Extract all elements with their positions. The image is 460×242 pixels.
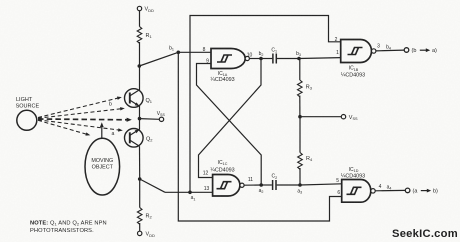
wire b2 to IC1C pin 12 (cross coupling): [199, 59, 262, 178]
capacitor C1: [271, 47, 277, 63]
watermark SeekIC.com: [392, 228, 458, 240]
wire Q2 collector down: [139, 146, 141, 179]
light source: [16, 97, 40, 130]
node junction Q2c/R2: [138, 177, 142, 181]
wire C1 to b3: [277, 58, 299, 60]
wire mid node to VSS terminal: [140, 118, 160, 121]
wire Q1 emitter to mid node: [139, 106, 141, 119]
terminal output (b to a): [404, 48, 437, 54]
node mid (Q1e/Q2e): [138, 117, 142, 121]
note text: [30, 220, 107, 234]
wire IC1A output to b2: [250, 58, 261, 60]
node b3: [296, 51, 301, 61]
node b2: [259, 51, 264, 61]
node junction R3/R4: [298, 115, 302, 119]
terminal VDD top: [137, 6, 154, 13]
transistor Q2: [125, 128, 154, 147]
resistor R2: [137, 179, 152, 224]
node b4 label: [386, 44, 391, 50]
wire IC1D output to terminal: [375, 189, 405, 191]
nand gate IC1A: [203, 47, 253, 83]
beam label b: [109, 102, 112, 108]
wire b2 to C1: [261, 58, 272, 60]
light beam b: [38, 107, 125, 119]
terminal output (a to b): [405, 188, 438, 195]
terminal VDD bottom: [138, 231, 156, 238]
node b1: [169, 46, 180, 55]
arrow object motion up: [100, 122, 104, 138]
node a1: [188, 191, 195, 202]
wire b1 to IC1A pin 8: [178, 51, 211, 53]
decorative scan noise: [0, 0, 1, 1]
light beam blocked: [38, 120, 91, 137]
terminal VSS mid: [157, 111, 166, 121]
transistor Q1: [125, 89, 153, 108]
node a2: [259, 183, 264, 194]
wire IC1B output to terminal: [376, 49, 404, 52]
resistor R4: [298, 117, 313, 185]
wire junction to a1 line: [140, 179, 165, 192]
wire a2 to IC1A pin 9 (cross coupling): [197, 64, 262, 185]
node a4 label: [387, 184, 392, 190]
light beam to Q1: [38, 95, 122, 117]
resistor R3: [297, 59, 312, 117]
wire R2 to VDD terminal: [139, 223, 141, 231]
wire C2 to a3: [277, 184, 300, 186]
wire junction to VSS terminal: [300, 116, 341, 118]
beam label a: [112, 131, 115, 137]
light beam middle: [38, 118, 132, 122]
wire b3 to IC1B pin 1: [299, 57, 341, 60]
wire feedback a1 to IC1B pin 2: [190, 16, 341, 193]
wire feedback b1 to IC1D pin 6: [178, 52, 341, 221]
node a3: [297, 183, 302, 194]
terminal VSS right: [341, 115, 358, 121]
node junction R1/b1: [138, 64, 142, 68]
resistor R1: [137, 27, 152, 44]
wire VDD to R1: [139, 11, 141, 27]
nand gate IC1B: [335, 37, 381, 79]
wire a3 to IC1D pin 5: [300, 184, 342, 185]
capacitor C2: [271, 174, 277, 190]
nand gate IC1D: [336, 167, 381, 202]
moving object: [85, 138, 120, 195]
wire R1 to Q1 collector: [139, 42, 141, 90]
wire mid node to Q2 emitter: [139, 119, 141, 130]
light beam a: [38, 120, 123, 132]
wire a1 line to IC1C pin 13: [165, 191, 213, 193]
wire a2 to C2: [261, 184, 272, 186]
wire IC1C output to a2: [244, 184, 261, 186]
nand gate IC1C: [203, 160, 254, 196]
wire junction to b1: [139, 52, 178, 66]
